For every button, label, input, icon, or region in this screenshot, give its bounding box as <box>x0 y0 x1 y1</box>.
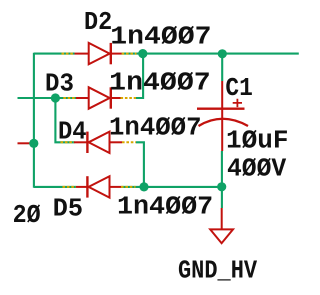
pin overlap dashes D5 left <box>63 186 77 188</box>
pin overlap dashes D2 right <box>122 53 137 55</box>
diode D4 <box>74 132 122 153</box>
svg-text:1n4ØØ7: 1n4ØØ7 <box>109 114 202 143</box>
ground GND_HV lead <box>221 208 223 229</box>
svg-text:D5: D5 <box>53 194 83 223</box>
AC1 input pin stub <box>18 142 34 144</box>
wire: cap top green lead <box>221 54 223 81</box>
svg-text:2Ø: 2Ø <box>13 201 41 230</box>
wire: cap bottom green lead <box>221 151 223 208</box>
svg-text:D3: D3 <box>45 69 74 98</box>
svg-text:D2: D2 <box>84 8 112 37</box>
junction dot AC1 stub <box>29 139 38 148</box>
svg-text:GND_HV: GND_HV <box>178 256 258 285</box>
wire: AC2 stub into D3 row <box>18 97 77 99</box>
svg-text:C1: C1 <box>225 74 252 103</box>
svg-text:4ØØV: 4ØØV <box>227 155 287 184</box>
pin overlap dashes D4 right <box>122 141 136 143</box>
pin overlap dashes D5 right <box>121 186 136 188</box>
wire: D5 row left segment <box>34 186 76 188</box>
capacitor C1 <box>197 81 248 151</box>
wire: top rail right of D2 to right edge <box>122 53 299 55</box>
diode D2 <box>75 43 122 64</box>
pin overlap dashes D3 left <box>63 97 76 99</box>
wire: D3 node down to D4 row <box>55 98 74 142</box>
ground symbol <box>210 229 233 243</box>
junction dot ground node <box>217 182 226 191</box>
svg-text:1n4ØØ7: 1n4ØØ7 <box>117 193 213 222</box>
junction dot D3 node <box>51 93 60 102</box>
pin overlap dashes D4 left <box>61 141 75 143</box>
pin overlap dashes D2 left <box>62 53 75 55</box>
diode D5 <box>76 176 121 197</box>
wire: left AC1 vertical rail <box>33 53 35 188</box>
diode D3 <box>76 87 121 108</box>
svg-text:1ØuF: 1ØuF <box>226 127 289 156</box>
wire: D4 anode down-link to D5 row <box>136 142 144 188</box>
junction dot cap top <box>218 49 227 58</box>
junction dot D2/top rail <box>138 49 147 58</box>
pin overlap dashes D3 right <box>121 97 137 99</box>
wire: D2 row left segment <box>34 53 75 55</box>
svg-text:1n4ØØ7: 1n4ØØ7 <box>110 23 211 52</box>
wire: D3 cathode up-link to top rail <box>136 53 143 98</box>
svg-text:1n4ØØ7: 1n4ØØ7 <box>109 69 211 98</box>
junction dot D5 row <box>139 182 148 191</box>
wire: D5 row right segment to ground node <box>121 186 222 188</box>
svg-text:D4: D4 <box>58 118 87 147</box>
